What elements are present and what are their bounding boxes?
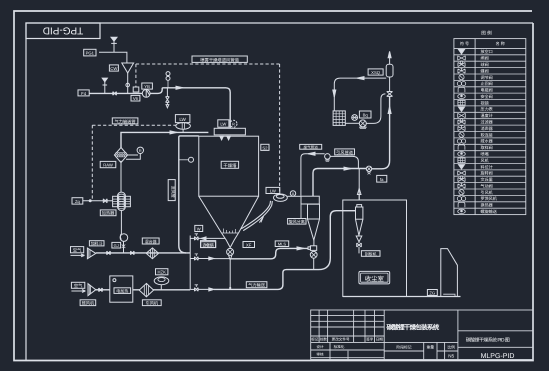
revision grid horizontals bbox=[311, 316, 385, 336]
svg-text:消声器: 消声器 bbox=[481, 126, 493, 131]
rotary feeder on top bbox=[218, 120, 237, 128]
legend symbol row 16 bbox=[458, 145, 465, 150]
pump discharge to riser bbox=[366, 94, 385, 124]
label pump below bbox=[131, 95, 140, 101]
svg-text:温度计: 温度计 bbox=[481, 113, 493, 118]
label filter FD bbox=[100, 161, 116, 167]
svg-text:引风机: 引风机 bbox=[146, 301, 159, 306]
legend header row bbox=[454, 47, 526, 49]
valve bowtie B1 bbox=[113, 92, 117, 96]
svg-text:HZK: HZK bbox=[158, 270, 167, 275]
label L2 bbox=[109, 65, 118, 71]
arrow on feed bbox=[297, 247, 304, 250]
legend symbol row 9 bbox=[458, 100, 465, 105]
label pump above bbox=[142, 83, 153, 89]
svg-text:放空口: 放空口 bbox=[481, 49, 493, 54]
svg-text:调节阀: 调节阀 bbox=[481, 75, 493, 80]
label exhaust bbox=[335, 149, 355, 155]
svg-text:比例: 比例 bbox=[447, 345, 455, 350]
label blower E1 bbox=[175, 115, 190, 123]
svg-text:旋转阀: 旋转阀 bbox=[481, 171, 493, 176]
drain wye to bottom pipe bbox=[229, 255, 232, 289]
label on dashed LB2 bbox=[112, 118, 138, 124]
svg-text:YB: YB bbox=[144, 84, 150, 89]
svg-text:R: R bbox=[232, 123, 235, 127]
svg-text:MLS: MLS bbox=[278, 242, 287, 247]
pipe main air line bbox=[89, 92, 142, 94]
funnel hopper H1 bbox=[122, 63, 134, 73]
small cyclone SC bbox=[301, 196, 320, 240]
big cyclone vent line bbox=[358, 169, 360, 200]
svg-text:文丘里: 文丘里 bbox=[481, 177, 493, 182]
label T2 below bbox=[80, 300, 96, 306]
dashed horizontal to blower bbox=[92, 124, 176, 126]
arrow up on riser bbox=[388, 107, 391, 114]
room label box bbox=[359, 271, 390, 284]
arrow right on loop bbox=[357, 77, 364, 80]
svg-text:TPG-PID: TPG-PID bbox=[43, 25, 84, 36]
svg-text:PG1: PG1 bbox=[86, 51, 95, 56]
lower-left horizontals bbox=[311, 342, 458, 357]
branch b3 valve bbox=[190, 285, 214, 291]
arrow left on branch bbox=[308, 152, 315, 155]
legend symbol row 22 bbox=[458, 183, 465, 188]
pipe descender x181 bbox=[179, 136, 199, 253]
svg-text:空气: 空气 bbox=[73, 248, 82, 253]
label L1 bbox=[84, 49, 96, 56]
svg-text:过滤器: 过滤器 bbox=[481, 120, 493, 125]
svg-text:阶段标记: 阶段标记 bbox=[396, 345, 411, 350]
legend symbol row 20 bbox=[458, 171, 466, 175]
label E2 above bbox=[156, 269, 168, 275]
label M1 above bbox=[142, 238, 159, 244]
exhaust header to valve bbox=[318, 168, 367, 170]
vent V2 bbox=[102, 78, 107, 93]
recirc loop top bbox=[334, 78, 386, 111]
svg-text:R: R bbox=[139, 149, 142, 153]
svg-text:软连接: 软连接 bbox=[481, 132, 493, 137]
legend outer box bbox=[454, 39, 526, 215]
legend symbol row 10 bbox=[458, 107, 464, 112]
legend symbol row 26 bbox=[458, 209, 466, 213]
svg-text:旋风分离: 旋风分离 bbox=[289, 219, 305, 224]
vent V1 top bbox=[111, 37, 117, 52]
legend symbol row 19 bbox=[458, 165, 464, 170]
svg-text:XF: XF bbox=[246, 242, 252, 247]
big cyclone inlet bbox=[343, 210, 356, 212]
arrow on that header bbox=[170, 131, 177, 134]
dryer body bbox=[199, 136, 259, 196]
label branch1 bbox=[201, 242, 216, 248]
svg-text:日期: 日期 bbox=[376, 337, 384, 341]
legend symbol row 11 bbox=[458, 113, 466, 117]
instrument TI/PI stack bbox=[166, 72, 170, 88]
label bag tower bbox=[427, 290, 437, 296]
svg-text:MLPG-PID: MLPG-PID bbox=[481, 353, 515, 360]
svg-text:刮板机: 刮板机 bbox=[365, 251, 377, 256]
heater coil HC bbox=[113, 161, 131, 211]
svg-text:A: A bbox=[292, 192, 295, 196]
svg-text:LW: LW bbox=[220, 121, 226, 126]
valve circle on exhaust bbox=[366, 166, 371, 174]
pipe filter top to header bbox=[121, 132, 208, 147]
svg-text:重量: 重量 bbox=[427, 345, 435, 350]
ground line bbox=[343, 296, 461, 298]
inline device circle bbox=[325, 154, 331, 162]
label after valve bbox=[377, 175, 387, 182]
svg-text:Xz1: Xz1 bbox=[204, 242, 212, 247]
instrument bypass circle bbox=[126, 147, 144, 159]
legend symbol row 21 bbox=[458, 178, 465, 182]
sweep line to big cyclone bbox=[319, 211, 356, 270]
pipe bottom long line bbox=[214, 270, 319, 290]
legend symbol row 24 bbox=[457, 197, 461, 201]
legend symbol row 23 bbox=[459, 190, 464, 195]
label P2 bbox=[359, 111, 371, 118]
SC drain valve X bbox=[310, 251, 317, 269]
svg-text:引风管道: 引风管道 bbox=[336, 150, 354, 155]
svg-text:引风机: 引风机 bbox=[481, 190, 493, 195]
svg-text:设计: 设计 bbox=[316, 344, 324, 349]
svg-text:风机: 风机 bbox=[481, 158, 489, 163]
legend symbol row 5 bbox=[459, 75, 464, 80]
filter diamond FD bbox=[114, 148, 127, 163]
legend rows bbox=[454, 49, 526, 214]
legend symbol row 1 bbox=[458, 49, 464, 54]
svg-text:电加热: 电加热 bbox=[116, 288, 128, 293]
svg-text:处数: 处数 bbox=[320, 336, 328, 341]
instrument circle A bbox=[287, 191, 301, 197]
fan E3 bbox=[274, 194, 288, 201]
svg-text:碳酸锂干燥系统 PID 图: 碳酸锂干燥系统 PID 图 bbox=[466, 337, 510, 344]
svg-text:Zq: Zq bbox=[75, 199, 81, 204]
pipe top header to dryer bbox=[162, 88, 230, 129]
revision grid verticals bbox=[319, 310, 374, 342]
label heater HC bbox=[100, 210, 116, 216]
mixer diamond M1 bbox=[146, 248, 158, 259]
label SC left bbox=[288, 219, 306, 225]
svg-text:废气管道: 废气管道 bbox=[304, 144, 319, 149]
svg-text:CW: CW bbox=[110, 66, 117, 71]
legend symbol row 18 bbox=[458, 158, 465, 163]
legend symbol row 7 bbox=[458, 87, 465, 92]
exhaust duct tank to fan bbox=[241, 201, 270, 229]
svg-text:S2: S2 bbox=[262, 145, 268, 150]
svg-text:ZG: ZG bbox=[429, 290, 435, 295]
svg-text:换热器: 换热器 bbox=[481, 203, 493, 208]
valve B2 bbox=[107, 251, 111, 255]
svg-text:更改文件号: 更改文件号 bbox=[332, 336, 350, 341]
legend symbol row 6 bbox=[457, 82, 461, 86]
pump P2 with motor bbox=[345, 115, 367, 129]
svg-text:视镜: 视镜 bbox=[481, 100, 489, 105]
svg-text:闸阀: 闸阀 bbox=[481, 56, 489, 61]
label big cyclone drain bbox=[361, 251, 380, 257]
device outlet elbow down bbox=[330, 156, 358, 168]
svg-text:加料斗: 加料斗 bbox=[91, 241, 103, 246]
label drain right bbox=[243, 242, 255, 248]
svg-text:LW: LW bbox=[179, 117, 186, 122]
svg-text:收尘室: 收尘室 bbox=[365, 275, 385, 283]
pump P1 bbox=[142, 90, 150, 98]
legend symbol row 3 bbox=[458, 63, 465, 67]
feeder triangle T2 bbox=[88, 284, 96, 296]
label air1 bbox=[71, 247, 85, 257]
riser junction x190 bbox=[189, 236, 191, 290]
pipe heater bottom down with loop seal bbox=[120, 211, 128, 253]
svg-text:W: W bbox=[197, 226, 201, 231]
riser pipe above valve bbox=[389, 77, 391, 92]
legend symbol row 25 bbox=[458, 202, 465, 207]
svg-text:空气: 空气 bbox=[74, 283, 83, 288]
label E3 bbox=[266, 187, 280, 193]
svg-text:进风管: 进风管 bbox=[171, 186, 176, 198]
svg-text:螺旋输送: 螺旋输送 bbox=[481, 209, 497, 214]
hatched filter box bbox=[333, 111, 345, 126]
svg-text:球阀: 球阀 bbox=[481, 62, 489, 67]
svg-text:加热器: 加热器 bbox=[102, 211, 115, 216]
pipe pump discharge riser bbox=[150, 88, 162, 94]
dashed signal left drop bbox=[91, 125, 93, 201]
label dryer name bbox=[221, 161, 238, 168]
SC support leg bbox=[300, 204, 302, 218]
right cell horizontals bbox=[458, 331, 533, 348]
main verticals bbox=[384, 310, 458, 360]
big cyclone body bbox=[356, 205, 363, 242]
svg-text:XSQ: XSQ bbox=[371, 70, 381, 75]
svg-text:标记: 标记 bbox=[311, 336, 319, 341]
silencer capsule bbox=[386, 64, 393, 77]
drain stub with valve bbox=[166, 88, 170, 108]
legend symbol row 4 bbox=[458, 68, 465, 73]
branch b2 valve bbox=[190, 254, 230, 260]
svg-text:止回阀: 止回阀 bbox=[481, 81, 493, 86]
svg-text:LW: LW bbox=[270, 188, 276, 193]
svg-text:名 称: 名 称 bbox=[496, 41, 505, 46]
svg-text:气力输送管: 气力输送管 bbox=[115, 119, 136, 124]
label silencer bbox=[368, 69, 383, 75]
label line label box LB1 bbox=[192, 56, 247, 62]
svg-text:取样阀: 取样阀 bbox=[481, 145, 493, 150]
label bottom line bbox=[246, 282, 267, 288]
svg-text:混合器: 混合器 bbox=[145, 239, 157, 244]
svg-text:RAW: RAW bbox=[103, 163, 113, 168]
steam feed line into heater bbox=[72, 198, 113, 204]
label drain left bbox=[201, 241, 216, 248]
big cyclone vent arrow bbox=[357, 189, 361, 201]
blower E1 ellipse bbox=[176, 123, 191, 133]
svg-text:电磁阀: 电磁阀 bbox=[481, 88, 493, 93]
solenoid box on dashed bbox=[133, 87, 139, 92]
label feed line bbox=[275, 241, 289, 247]
title block outer bbox=[311, 310, 533, 360]
bag tower bbox=[441, 249, 458, 297]
legend symbol row 8 bbox=[458, 94, 466, 98]
heater cabinet HB2 bbox=[110, 276, 133, 302]
arrow on top header bbox=[176, 86, 183, 89]
mixer diamond M2 bbox=[139, 283, 153, 296]
legend symbol row 2 bbox=[458, 56, 466, 60]
label M2 below bbox=[142, 300, 161, 306]
svg-text:签字: 签字 bbox=[366, 336, 374, 341]
branch riser from fan line bbox=[301, 154, 325, 196]
svg-text:疏水器: 疏水器 bbox=[481, 139, 493, 144]
svg-text:干燥塔: 干燥塔 bbox=[223, 163, 237, 168]
label air2 bbox=[71, 282, 85, 292]
svg-text:F4: F4 bbox=[81, 91, 87, 96]
branch b1 valve with handle bbox=[190, 234, 225, 240]
SC rotary feeder bbox=[308, 240, 317, 250]
legend symbol row 15 bbox=[457, 139, 461, 143]
dashed drop to fan E3 bbox=[279, 64, 281, 193]
legend symbol row 14 bbox=[459, 132, 464, 137]
dryer top plate bbox=[214, 128, 245, 135]
svg-text:GJ: GJ bbox=[114, 243, 119, 248]
lower mid verticals bbox=[330, 342, 445, 359]
dashed signal line top bbox=[135, 64, 137, 87]
legend column divider bbox=[474, 39, 476, 215]
svg-text:审核: 审核 bbox=[316, 352, 324, 357]
pipe row2 bbox=[96, 289, 110, 291]
label on branch bbox=[300, 144, 322, 149]
fluid bed hatches bbox=[222, 232, 239, 234]
big cyclone drain valve bbox=[357, 242, 362, 254]
small cell divider bbox=[384, 350, 458, 352]
blower oval E2 bbox=[154, 277, 169, 290]
label dryer right tag bbox=[261, 144, 269, 150]
drain rotary valve X bbox=[227, 248, 234, 255]
svg-text:气力输送: 气力输送 bbox=[248, 283, 266, 288]
svg-text:喷嘴: 喷嘴 bbox=[481, 152, 489, 157]
svg-text:蝶阀: 蝶阀 bbox=[481, 68, 489, 73]
valve B4 bbox=[99, 288, 103, 292]
bottom funnel bbox=[222, 233, 239, 248]
svg-text:碳酸锂干燥包装系统: 碳酸锂干燥包装系统 bbox=[386, 324, 439, 332]
svg-text:Bq: Bq bbox=[363, 113, 369, 118]
svg-text:图 例: 图 例 bbox=[481, 30, 492, 35]
svg-text:气动阀: 气动阀 bbox=[481, 183, 493, 188]
drain to feed conveyor bbox=[230, 248, 308, 258]
pipe funnel drop bbox=[127, 73, 129, 93]
arrow down on loop bbox=[333, 90, 336, 97]
nozzles under plate bbox=[220, 136, 231, 140]
legend symbol row 17 bbox=[458, 152, 466, 156]
SC outlet vertical bbox=[313, 169, 318, 197]
title box TPG-PID bbox=[26, 23, 100, 39]
svg-text:安全阀: 安全阀 bbox=[481, 94, 493, 99]
label L3 air inlet bbox=[78, 90, 89, 96]
legend symbol row 13 bbox=[458, 126, 465, 131]
elbow up to main riser bbox=[372, 96, 390, 168]
label W left of cone bbox=[195, 225, 203, 231]
vent stack with arrow bbox=[389, 58, 391, 65]
label loop seal bbox=[112, 242, 121, 248]
arrow right on exhaust bbox=[344, 167, 351, 170]
feeder triangle T1 bbox=[87, 248, 95, 259]
svg-text:N5: N5 bbox=[448, 354, 454, 359]
rotated label box left bbox=[168, 180, 176, 201]
svg-text:鼓风机: 鼓风机 bbox=[82, 301, 95, 306]
svg-text:V6: V6 bbox=[133, 96, 139, 101]
riser valve bbox=[387, 92, 393, 97]
gauge circle left of tank bbox=[179, 157, 194, 162]
valve B3 bbox=[131, 251, 135, 255]
svg-text:喷雾干燥塔进风管道: 喷雾干燥塔进风管道 bbox=[200, 57, 239, 62]
dryer cone bbox=[199, 196, 259, 233]
pipe row1 bbox=[96, 252, 190, 254]
valve ball on drop bbox=[126, 83, 130, 87]
legend symbol row 12 bbox=[458, 120, 465, 124]
room rectangle bbox=[343, 200, 407, 297]
svg-text:罗茨风机: 罗茨风机 bbox=[481, 196, 497, 201]
label T1 above bbox=[89, 241, 104, 246]
pipe row2 mid bbox=[133, 289, 190, 291]
pipe vent header bbox=[99, 52, 127, 62]
svg-text:符 号: 符 号 bbox=[460, 41, 469, 46]
svg-text:压力表: 压力表 bbox=[481, 107, 493, 112]
svg-text:料位计: 料位计 bbox=[481, 164, 493, 169]
svg-text:标准化: 标准化 bbox=[334, 344, 345, 349]
